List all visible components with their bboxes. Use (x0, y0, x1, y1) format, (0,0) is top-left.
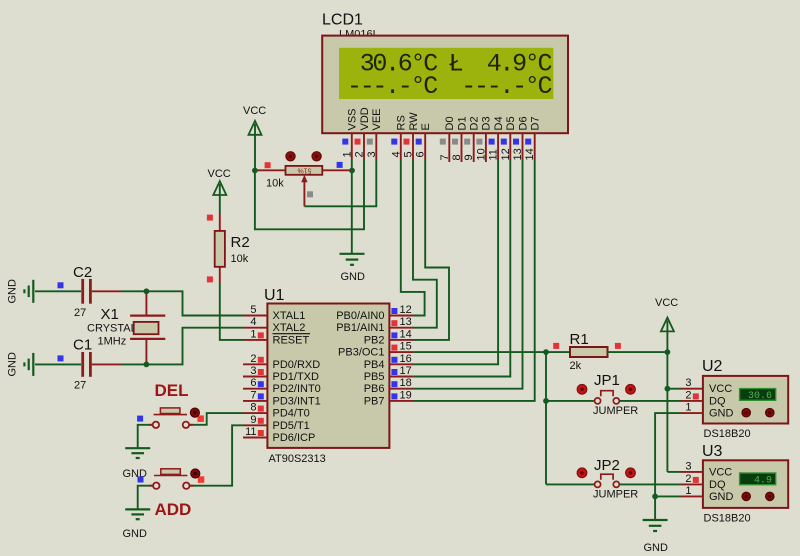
svg-text:C2: C2 (73, 264, 92, 281)
wire VCC rail to U2 pin3 (667, 388, 680, 390)
svg-text:PD3/INT1: PD3/INT1 (273, 395, 321, 407)
node C2/X1 junction (144, 288, 150, 294)
svg-text:2k: 2k (570, 360, 582, 372)
svg-text:X1: X1 (101, 306, 119, 323)
svg-text:18: 18 (400, 377, 412, 389)
wire C2 net to XTAL1 (146, 291, 243, 315)
svg-text:7: 7 (439, 154, 451, 160)
svg-text:VDD: VDD (359, 107, 371, 130)
U1 left pin names (273, 310, 321, 444)
svg-text:PD0/RXD: PD0/RXD (273, 359, 321, 371)
svg-text:D7: D7 (530, 116, 542, 130)
U1 left pin stubs (243, 316, 267, 438)
wire U2 GND down (655, 413, 680, 496)
svg-text:XTAL1: XTAL1 (273, 310, 306, 322)
svg-text:3: 3 (250, 365, 256, 377)
RESET overline (273, 333, 311, 335)
svg-text:13: 13 (512, 148, 524, 160)
temperature sensor U3 DS18B20 (681, 443, 789, 525)
svg-text:10k: 10k (266, 178, 284, 190)
wire DQ bus vertical (545, 352, 547, 484)
svg-text:JP2: JP2 (594, 457, 620, 474)
svg-text:RS: RS (396, 115, 408, 130)
svg-text:13: 13 (400, 316, 412, 328)
push button ADD (138, 425, 244, 519)
svg-text:PB2: PB2 (364, 334, 385, 346)
svg-text:U3: U3 (702, 443, 723, 460)
svg-text:PB0/AIN0: PB0/AIN0 (336, 310, 384, 322)
svg-text:ADD: ADD (155, 500, 192, 519)
svg-text:8: 8 (250, 402, 256, 414)
svg-text:AT90S2313: AT90S2313 (269, 453, 326, 465)
node U2/U3 gnd junction (652, 494, 658, 500)
svg-text:DEL: DEL (155, 381, 189, 400)
svg-text:PB1/AIN1: PB1/AIN1 (336, 322, 384, 334)
VCC symbol (pot) (243, 105, 266, 171)
svg-text:8: 8 (451, 154, 463, 160)
node JP1/DQ junction (543, 398, 549, 404)
svg-text:CRYSTAL: CRYSTAL (87, 323, 137, 335)
wire VEE to pot wiper (304, 160, 376, 207)
ground (C1, rotated) (24, 353, 33, 376)
svg-text:12: 12 (500, 148, 512, 160)
svg-text:DQ: DQ (709, 395, 726, 407)
svg-text:4.9: 4.9 (754, 475, 772, 486)
wire R2 bottom to RESET (220, 283, 243, 340)
wire U3 GND to ground (655, 495, 680, 497)
svg-text:PD4/T0: PD4/T0 (273, 408, 310, 420)
svg-text:D6: D6 (517, 116, 529, 130)
svg-text:5: 5 (250, 304, 256, 316)
svg-text:17: 17 (400, 365, 412, 377)
svg-text:C1: C1 (73, 337, 92, 354)
svg-text:19: 19 (400, 389, 412, 401)
svg-text:14: 14 (524, 148, 536, 160)
jumper JP1 (546, 372, 681, 417)
svg-text:D1: D1 (456, 116, 468, 130)
svg-text:D4: D4 (493, 116, 505, 130)
svg-text:VCC: VCC (709, 466, 732, 478)
U1 right pin state squares (391, 308, 397, 399)
svg-text:JUMPER: JUMPER (593, 405, 638, 417)
svg-text:D5: D5 (505, 116, 517, 130)
svg-text:PB5: PB5 (364, 371, 385, 383)
wire D7 to PB7 (414, 160, 535, 401)
capacitor C2 27 (35, 264, 146, 319)
svg-text:2: 2 (250, 353, 256, 365)
svg-text:3: 3 (685, 460, 691, 472)
svg-text:LCD1: LCD1 (322, 12, 363, 29)
MCU U1 AT90S2313 (264, 287, 389, 465)
svg-text:R2: R2 (231, 234, 250, 251)
svg-text:1: 1 (250, 328, 256, 340)
svg-text:9: 9 (463, 154, 475, 160)
resistor R2 10k (207, 213, 250, 283)
svg-text:VCC: VCC (655, 297, 678, 309)
svg-text:D2: D2 (469, 116, 481, 130)
VCC symbol (R2) (208, 168, 231, 213)
LCD pin names rotated (347, 107, 542, 130)
svg-text:E: E (420, 123, 432, 130)
svg-text:6: 6 (250, 377, 256, 389)
svg-text:DQ: DQ (709, 479, 726, 491)
svg-text:GND: GND (7, 352, 19, 377)
wire RS to PB0 (401, 160, 425, 316)
wire VSS to ground (351, 160, 353, 254)
svg-text:11: 11 (245, 426, 256, 438)
LCD pin state squares (342, 139, 531, 145)
wire C1 net to XTAL2 (146, 328, 243, 365)
svg-text:1: 1 (341, 151, 353, 157)
wire VDD loop to VCC rail (255, 160, 364, 230)
node R1/DQ junction (543, 349, 549, 355)
svg-text:DS18B20: DS18B20 (704, 513, 751, 525)
svg-text:3: 3 (685, 377, 691, 389)
svg-text:XTAL2: XTAL2 (273, 322, 306, 334)
svg-text:30.6: 30.6 (748, 391, 772, 402)
svg-text:12: 12 (400, 304, 412, 316)
svg-text:16: 16 (400, 353, 412, 365)
node C1/X1 junction (144, 362, 150, 368)
wire PB3/OC1 net to R1 (414, 351, 570, 353)
svg-text:9: 9 (250, 414, 256, 426)
ground (C2, rotated) (24, 280, 33, 303)
potentiometer 10k (255, 152, 352, 207)
LCD LM016L display LCD1 (322, 12, 568, 134)
svg-text:RW: RW (408, 112, 420, 131)
LCD pin numbers rotated (341, 148, 536, 160)
wire D4 to PB4 (414, 160, 499, 365)
ground (ADD) (125, 509, 150, 519)
svg-text:2: 2 (685, 473, 691, 485)
U1 left pin numbers (245, 304, 256, 438)
svg-text:GND: GND (709, 491, 734, 503)
svg-text:GND: GND (709, 408, 734, 420)
wire D6 to PB6 (414, 160, 523, 389)
svg-text:10: 10 (475, 148, 487, 160)
svg-text:U2: U2 (702, 358, 723, 375)
svg-text:4: 4 (250, 316, 256, 328)
svg-text:1: 1 (685, 402, 691, 414)
svg-text:JUMPER: JUMPER (593, 489, 638, 501)
svg-text:VCC: VCC (709, 383, 732, 395)
ground (right) (643, 520, 668, 531)
svg-text:VCC: VCC (208, 168, 231, 180)
U1 left pin state squares (258, 332, 264, 436)
wire D5 to PB5 (414, 160, 511, 377)
node: pot-right/VSS junction (349, 168, 355, 174)
svg-text:51%: 51% (297, 166, 311, 173)
U1 right pin stubs (389, 316, 413, 401)
LCD pin stubs 1-14 (352, 133, 535, 162)
svg-text:PD2/INT0: PD2/INT0 (273, 383, 321, 395)
svg-text:GND: GND (644, 542, 669, 554)
svg-text:1: 1 (685, 485, 691, 497)
wire E to PB2 (414, 160, 449, 340)
svg-text:10k: 10k (231, 253, 249, 265)
svg-text:RESET: RESET (273, 334, 310, 346)
svg-text:1MHz: 1MHz (98, 336, 127, 348)
svg-text:VSS: VSS (347, 108, 359, 130)
crystal X1 1MHz (87, 291, 165, 364)
svg-text:VCC: VCC (243, 105, 266, 117)
U1 right pin names (336, 310, 384, 407)
node U2-VCC junction (665, 386, 671, 392)
svg-text:PB3/OC1: PB3/OC1 (338, 347, 384, 359)
ground below LCD (340, 254, 365, 265)
svg-text:PD1/TXD: PD1/TXD (273, 371, 320, 383)
wire RW to PB1 (413, 160, 437, 328)
svg-text:6: 6 (415, 151, 427, 157)
VCC symbol (right rail) (655, 297, 678, 472)
svg-text:3: 3 (366, 151, 378, 157)
svg-text:DS18B20: DS18B20 (704, 428, 751, 440)
svg-text:GND: GND (7, 279, 19, 304)
ground (DEL) (125, 448, 150, 458)
node: pot-left/VCC junction (252, 168, 258, 174)
capacitor C1 27 (35, 337, 146, 392)
svg-text:D3: D3 (481, 116, 493, 130)
svg-text:11: 11 (488, 149, 500, 160)
svg-text:PD5/T1: PD5/T1 (273, 420, 310, 432)
svg-text:GND: GND (123, 528, 148, 540)
svg-text:PD6/ICP: PD6/ICP (273, 432, 316, 444)
svg-text:5: 5 (403, 151, 415, 157)
wire VCC rail to U3 pin3 (667, 471, 680, 473)
svg-text:PB4: PB4 (364, 359, 385, 371)
svg-text:PB6: PB6 (364, 383, 385, 395)
svg-text:D0: D0 (444, 116, 456, 130)
U1 right pin numbers (400, 304, 412, 401)
svg-text:VEE: VEE (371, 108, 383, 130)
svg-text:27: 27 (74, 380, 86, 392)
svg-text:GND: GND (341, 271, 366, 283)
temperature sensor U2 DS18B20 (681, 358, 789, 440)
node R1/VCC junction (665, 349, 671, 355)
svg-text:R1: R1 (570, 331, 589, 348)
svg-text:27: 27 (74, 307, 86, 319)
jumper JP2 (546, 457, 681, 501)
svg-text:2: 2 (685, 389, 691, 401)
svg-text:14: 14 (400, 328, 412, 340)
svg-text:JP1: JP1 (594, 372, 620, 389)
svg-text:15: 15 (400, 341, 412, 353)
svg-text:---.-°C ---.-°C: ---.-°C ---.-°C (347, 72, 553, 101)
resistor R1 2k (553, 331, 667, 372)
svg-text:4: 4 (390, 151, 402, 157)
svg-text:U1: U1 (264, 287, 285, 304)
svg-text:2: 2 (354, 151, 366, 157)
push button DEL (137, 381, 243, 448)
svg-text:7: 7 (250, 389, 256, 401)
svg-text:PB7: PB7 (364, 395, 385, 407)
